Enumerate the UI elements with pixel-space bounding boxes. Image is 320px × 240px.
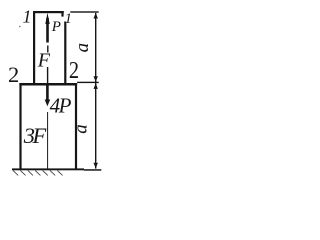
dimension line a-a [95, 13, 96, 169]
svg-text:2: 2 [69, 56, 79, 83]
dimension arrowhead above junction (down) [94, 76, 98, 82]
junction extension line [77, 82, 99, 83]
axis dash above F [47, 46, 48, 53]
svg-text:3F: 3F [23, 123, 47, 148]
svg-text:a: a [71, 124, 92, 134]
top edge end tick [61, 13, 63, 17]
svg-text:1: 1 [23, 7, 32, 27]
dimension arrowhead below junction (up) [94, 83, 98, 89]
svg-text:1: 1 [65, 11, 72, 27]
ground line [12, 168, 84, 170]
lower bar left edge [19, 83, 21, 170]
ground hatching [13, 171, 63, 176]
force P arrowhead (up) [45, 13, 49, 24]
junction line (top of lower bar) [19, 83, 77, 86]
svg-text:4P: 4P [50, 93, 72, 117]
dimension arrowhead bottom (down) [94, 163, 98, 169]
dimension arrowhead top (up) [94, 13, 98, 19]
axis line in lower bar [47, 112, 48, 169]
ground line right tick under dimension line [84, 169, 101, 171]
lower bar right edge [75, 83, 77, 170]
upper bar top edge [33, 11, 64, 13]
svg-text:2: 2 [8, 62, 19, 87]
stray speck [19, 26, 21, 28]
svg-text:P: P [51, 19, 61, 35]
force 4P arrowhead (down) [45, 100, 51, 107]
force 4P arrow shaft [46, 85, 49, 100]
svg-text:a: a [72, 43, 93, 53]
svg-text:F: F [37, 50, 51, 72]
axis dash below F [47, 67, 48, 83]
upper bar left edge [33, 11, 35, 85]
force P arrow shaft [46, 18, 49, 43]
top extension line [70, 11, 98, 12]
upper bar right edge [64, 22, 66, 86]
